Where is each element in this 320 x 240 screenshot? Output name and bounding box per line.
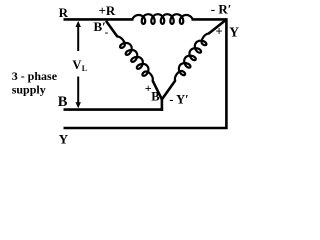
wire vertex to B line [161, 98, 164, 111]
VL arrowhead up [76, 21, 81, 27]
svg-text:supply: supply [12, 82, 46, 96]
inductor winding R (top coil) [133, 14, 193, 24]
svg-text:- R′: - R′ [211, 2, 232, 17]
inductor winding B (left coil) [117, 37, 152, 81]
VL arrow line [77, 25, 79, 52]
svg-text:B: B [58, 94, 68, 110]
svg-text:R: R [59, 5, 69, 20]
inductor winding Y (right coil) [175, 34, 209, 81]
wire upper-right lead (R'-Y corner) [209, 20, 227, 34]
svg-text:L: L [82, 64, 87, 73]
VL arrowhead down [76, 102, 81, 108]
svg-text:- Y′: - Y′ [169, 93, 188, 107]
wire top-left diagonal (B' lead) [106, 21, 117, 37]
svg-text:V: V [72, 58, 81, 72]
svg-text:+R: +R [99, 3, 116, 18]
wire B supply line [64, 108, 164, 111]
svg-text:B: B [151, 90, 159, 104]
svg-text:Y: Y [59, 132, 69, 147]
svg-text:-: - [105, 27, 109, 39]
wire R supply line [64, 18, 134, 21]
svg-text:Y: Y [229, 25, 239, 40]
svg-text:3 - phase: 3 - phase [12, 69, 58, 83]
svg-text:+: + [216, 25, 223, 39]
wire from R' coil end to corner, right vertical, Y supply line [64, 19, 227, 128]
wire lower-left lead to vertex and lower-right lead [153, 81, 176, 100]
